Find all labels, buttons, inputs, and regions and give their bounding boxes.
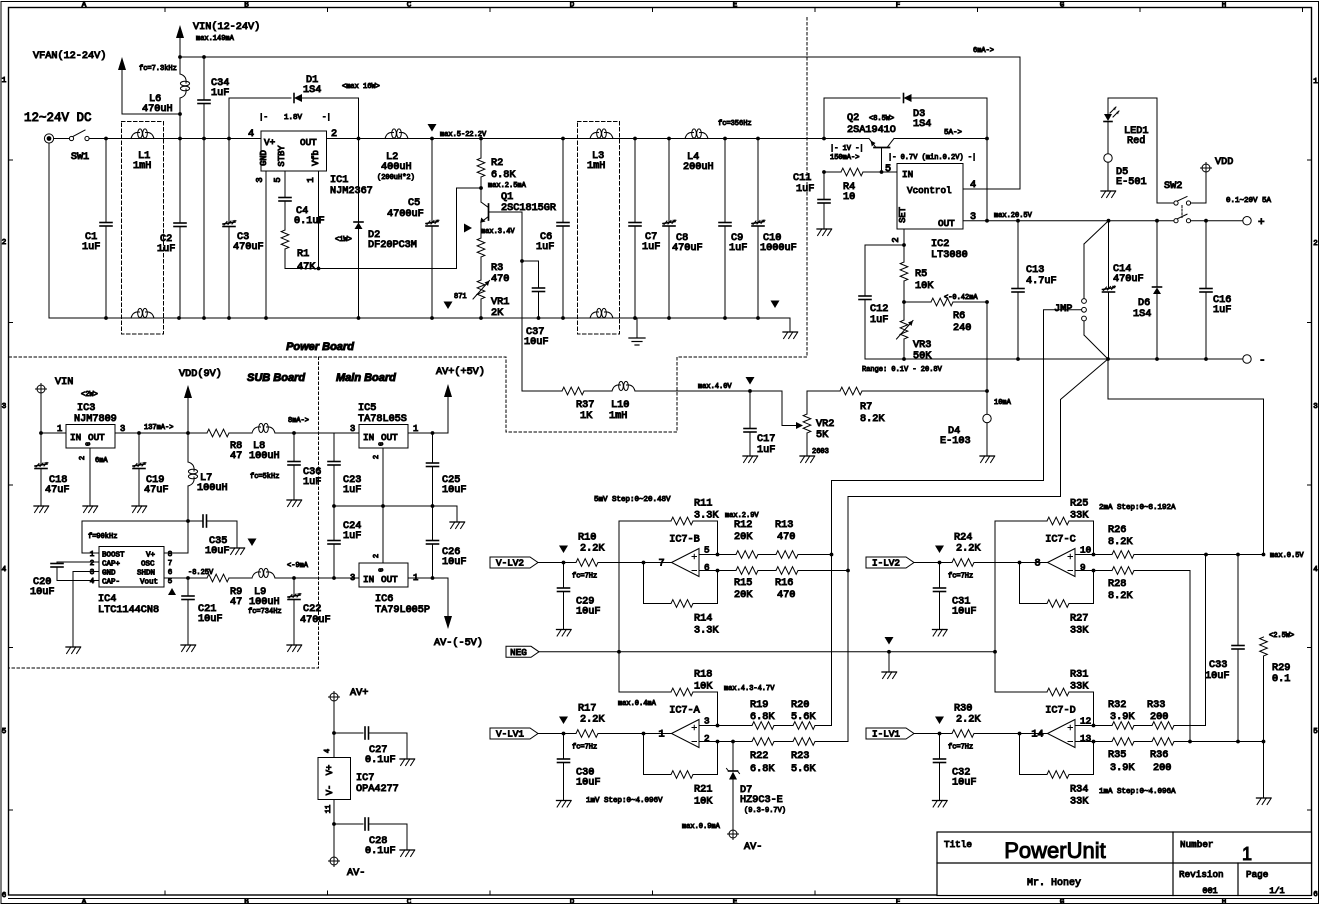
wire rail IC1 to Q2: [327, 137, 870, 141]
svg-text:6.8K: 6.8K: [491, 170, 516, 181]
IC3 ground pin: [79, 448, 108, 513]
resistor R22: [718, 738, 794, 775]
label max 20.5V: [994, 212, 1033, 220]
svg-text:Red: Red: [1127, 135, 1145, 147]
svg-text:1: 1: [1242, 844, 1252, 864]
regulator IC1 NJM2367 box: [261, 131, 327, 171]
inductor L3 bottom winding: [590, 308, 613, 318]
svg-text:1: 1: [1313, 78, 1318, 86]
label 2mA step: [1099, 504, 1176, 512]
svg-text:100uH: 100uH: [249, 597, 280, 608]
diode D6: [1133, 221, 1162, 359]
svg-text:400uH: 400uH: [381, 162, 412, 173]
svg-text:(9.3-9.7V): (9.3-9.7V): [744, 807, 786, 815]
label IC1 NJM2367: [330, 175, 373, 197]
svg-text:2.2K: 2.2K: [580, 544, 605, 555]
resistor R5: [900, 245, 934, 302]
svg-text:3: 3: [704, 716, 710, 727]
wire feedback bus left column: [618, 521, 620, 692]
IC4 gnd pin3: [66, 572, 99, 654]
label 1V 150mA measures: [830, 145, 976, 162]
wire I-LV1 input: [914, 717, 952, 736]
svg-text:V+: V+: [146, 552, 156, 560]
node max4.0V: [698, 377, 755, 393]
svg-text:4.7uF: 4.7uF: [1026, 276, 1057, 287]
svg-text:fc=7Hz: fc=7Hz: [948, 744, 973, 752]
svg-text:E: E: [733, 899, 738, 905]
capacitor C35: [188, 515, 257, 557]
svg-text:200: 200: [1150, 712, 1168, 723]
feedback resistor R14 bottom: [644, 563, 720, 637]
svg-text:4: 4: [90, 578, 95, 586]
node R2 bottom: [479, 186, 483, 190]
IC5 gnd pin2: [373, 448, 383, 506]
svg-text:5A->: 5A->: [944, 129, 963, 137]
svg-text:SET: SET: [898, 207, 908, 223]
svg-text:3: 3: [350, 424, 355, 434]
svg-text:AV-: AV-: [347, 868, 365, 879]
svg-text:5.6K: 5.6K: [791, 712, 816, 723]
svg-text:IC4: IC4: [98, 594, 116, 605]
oscillator loop f=90kHz: [82, 519, 190, 553]
capacitor C16: [1200, 221, 1231, 359]
wire feedback bus right column: [994, 521, 996, 692]
svg-text:150mA->: 150mA->: [830, 154, 859, 162]
net tag V-LV1: [490, 728, 538, 740]
svg-text:10K: 10K: [694, 682, 713, 693]
label 1mA step: [1099, 788, 1176, 796]
resistor R35: [1093, 738, 1153, 774]
capacitor C20: [30, 562, 99, 598]
svg-text:14: 14: [1031, 730, 1043, 741]
svg-text:D: D: [570, 899, 575, 905]
svg-text:VDD(9V): VDD(9V): [179, 368, 222, 380]
svg-text:11: 11: [325, 805, 333, 813]
svg-text:2: 2: [79, 456, 87, 460]
svg-text:R16: R16: [775, 578, 793, 589]
svg-text:NJM2367: NJM2367: [330, 186, 373, 197]
feedback resistor R11 top: [619, 499, 719, 555]
capacitor C7: [629, 139, 660, 319]
text max 16W: [342, 83, 380, 91]
wire D1 right leg: [358, 98, 360, 139]
capacitor C27: [334, 727, 415, 766]
output terminal plus: [1243, 217, 1265, 230]
svg-text:1S4: 1S4: [1133, 309, 1151, 320]
net tag I-LV2: [866, 557, 914, 569]
svg-text:4: 4: [248, 129, 254, 140]
svg-text:R31: R31: [1070, 670, 1088, 681]
node max5-22.2V marker: [428, 124, 488, 139]
IC2 labels: [885, 164, 955, 229]
svg-text:470: 470: [777, 532, 795, 543]
svg-text:47: 47: [230, 597, 242, 608]
wire R28 to I-LV1 line: [1188, 571, 1192, 744]
svg-text:6mA: 6mA: [95, 457, 108, 465]
capacitor C11: [793, 172, 832, 236]
IC5 pin numbers: [350, 424, 418, 434]
svg-text:2603: 2603: [812, 448, 829, 456]
svg-text:3.3K: 3.3K: [694, 626, 719, 637]
svg-text:R17: R17: [578, 704, 596, 715]
svg-text:OPA4277: OPA4277: [356, 784, 399, 795]
svg-text:1K: 1K: [580, 411, 593, 422]
svg-text:F: F: [896, 899, 901, 905]
jumper JMP: [1054, 299, 1086, 321]
svg-text:100uH: 100uH: [249, 451, 280, 462]
IC4 labels: [102, 552, 158, 587]
svg-text:V+: V+: [264, 137, 276, 148]
inductor L9: [248, 568, 359, 616]
svg-text:1uF: 1uF: [211, 88, 229, 99]
svg-text:2SA1941O: 2SA1941O: [847, 125, 896, 136]
svg-text:470uF: 470uF: [300, 615, 331, 626]
svg-text:A: A: [82, 2, 87, 10]
svg-text:7: 7: [658, 559, 664, 570]
svg-text:470uF: 470uF: [672, 243, 703, 254]
inductor L6: [139, 57, 190, 115]
svg-text:VIN(12-24V): VIN(12-24V): [193, 21, 260, 33]
ground NEG: [882, 637, 897, 679]
wire IC7 pin11: [332, 800, 336, 857]
svg-text:VFAN(12-24V): VFAN(12-24V): [33, 50, 106, 62]
svg-text:OUT: OUT: [381, 574, 398, 585]
label IC2 LT3080: [931, 239, 968, 261]
inductor L7: [188, 433, 279, 521]
wire IC1 gnd pin: [264, 171, 268, 320]
switch SW1: [54, 130, 106, 163]
capacitor C12: [859, 245, 888, 359]
svg-text:6: 6: [2, 892, 7, 900]
svg-text:5K: 5K: [816, 430, 829, 441]
border row numbers right: [1308, 78, 1319, 899]
label -9mA: [287, 562, 309, 570]
capacitor C1: [82, 139, 112, 319]
svg-text:10uF: 10uF: [576, 778, 600, 789]
svg-text:2: 2: [891, 237, 901, 242]
svg-text:3.3K: 3.3K: [694, 511, 719, 522]
svg-text:6: 6: [1313, 891, 1318, 899]
svg-text:50K: 50K: [913, 351, 932, 362]
svg-text:2.2K: 2.2K: [580, 715, 605, 726]
capacitor C23: [328, 433, 361, 506]
resistor R3: [477, 238, 509, 285]
capacitor C21: [181, 578, 222, 652]
label max 3.4V: [464, 224, 515, 237]
svg-text:Number: Number: [1180, 839, 1213, 850]
terminal VDD: [1201, 157, 1234, 203]
svg-text:1uF: 1uF: [642, 242, 660, 253]
wire minus to R29 C33: [1108, 359, 1264, 555]
svg-text:10uF: 10uF: [442, 485, 466, 496]
svg-text:Vout: Vout: [140, 579, 158, 587]
wire D3 left leg: [823, 98, 825, 139]
svg-text:VDD: VDD: [1215, 157, 1233, 168]
resistor R1: [281, 230, 316, 273]
svg-text:10uF: 10uF: [30, 587, 54, 598]
svg-text:10uF: 10uF: [524, 337, 548, 348]
svg-text:2: 2: [90, 560, 95, 568]
svg-text:470uF: 470uF: [1113, 274, 1144, 285]
text Main Board: [336, 372, 396, 384]
potentiometer VR2: [800, 391, 834, 463]
svg-text:2.2K: 2.2K: [956, 544, 981, 555]
regulator IC3 NJM7809 box: [66, 425, 115, 449]
svg-text:R27: R27: [1070, 614, 1088, 625]
svg-text:12: 12: [1080, 716, 1091, 727]
svg-text:R28: R28: [1108, 579, 1126, 590]
svg-text:IC7-A: IC7-A: [669, 706, 700, 717]
svg-text:Q2: Q2: [847, 113, 859, 124]
svg-text:max.4.0V: max.4.0V: [698, 383, 732, 391]
svg-text:IC7: IC7: [356, 773, 374, 784]
svg-text:OUT: OUT: [938, 218, 955, 229]
svg-text:1mH: 1mH: [587, 161, 605, 172]
svg-text:Revision: Revision: [1179, 869, 1224, 880]
op-amp IC7-C input wires: [1075, 545, 1095, 574]
svg-text:C13: C13: [1026, 265, 1044, 276]
svg-text:IN: IN: [363, 432, 374, 443]
resistor R32: [1093, 700, 1153, 729]
svg-text:LTC1144CN8: LTC1144CN8: [98, 605, 159, 616]
potentiometer VR3: [897, 302, 933, 362]
svg-text:R5: R5: [915, 269, 927, 280]
wire JMP bottom to minus: [1084, 321, 1108, 359]
svg-text:fc=7.3kHz: fc=7.3kHz: [139, 65, 177, 73]
svg-text:R21: R21: [694, 785, 712, 796]
svg-text:SHDN: SHDN: [137, 570, 155, 578]
svg-text:<max 16W>: <max 16W>: [342, 83, 380, 91]
svg-text:max.4.3-4.7V: max.4.3-4.7V: [724, 685, 775, 693]
capacitor C14: [1103, 221, 1144, 359]
capacitor C25: [427, 433, 467, 506]
svg-text:f=90kHz: f=90kHz: [88, 533, 117, 541]
wire power return rail: [49, 316, 790, 320]
svg-text:470: 470: [777, 590, 795, 601]
output terminal minus: [1243, 355, 1266, 367]
svg-text:R1: R1: [297, 249, 309, 260]
svg-text:1uF: 1uF: [729, 243, 747, 254]
capacitor C18: [34, 433, 69, 513]
svg-text:max.149mA: max.149mA: [196, 35, 235, 43]
LED1 branch wire: [1108, 98, 1174, 203]
svg-text:C22: C22: [303, 604, 321, 615]
svg-text:R22: R22: [750, 751, 768, 762]
svg-text:HZ9C3-E: HZ9C3-E: [740, 795, 783, 806]
svg-text:0.1~20V 5A: 0.1~20V 5A: [1226, 197, 1272, 205]
svg-text:12~24V DC: 12~24V DC: [24, 111, 92, 125]
diode D1: [229, 75, 359, 103]
svg-text:AV+(+5V): AV+(+5V): [436, 366, 485, 378]
wire sense bus V to I lower: [831, 555, 833, 726]
svg-text:4: 4: [2, 566, 7, 574]
svg-text:8.2K: 8.2K: [860, 414, 885, 425]
svg-text:47K: 47K: [297, 262, 316, 273]
svg-text:5.6K: 5.6K: [791, 764, 816, 775]
label L3 1mH: [587, 151, 605, 172]
svg-text:R25: R25: [1070, 499, 1088, 510]
svg-text:1: 1: [90, 551, 95, 559]
terminal AV+ op-amp: [329, 688, 369, 758]
svg-text:R33: R33: [1147, 700, 1165, 711]
IC4 pin numbers: [90, 551, 173, 586]
terminal AV- op-amp: [329, 856, 366, 880]
svg-text:470uH: 470uH: [142, 104, 173, 115]
svg-text:6mA->: 6mA->: [973, 47, 994, 55]
VDD power arrow: [179, 368, 222, 433]
svg-text:33K: 33K: [1070, 797, 1089, 808]
svg-text:max.0.9mA: max.0.9mA: [682, 823, 721, 831]
wire sense bus JMP: [832, 310, 1082, 555]
VFAN power arrow: [33, 50, 182, 116]
svg-text:47uF: 47uF: [45, 485, 69, 496]
feedback resistor R27 bottom: [1020, 563, 1094, 637]
svg-text:2: 2: [373, 554, 381, 558]
capacitor C26: [427, 506, 467, 578]
wire minus bus: [848, 359, 1108, 571]
svg-text:OUT: OUT: [381, 432, 398, 443]
svg-text:C5: C5: [408, 198, 420, 209]
charge pump IC4 box: [99, 547, 164, 588]
svg-text:10: 10: [843, 192, 855, 203]
svg-text:AV-: AV-: [744, 842, 762, 853]
resistor R24: [952, 533, 1020, 567]
label IC5 TA78L05S: [358, 403, 407, 425]
svg-text:R23: R23: [791, 751, 809, 762]
svg-text:3: 3: [90, 569, 95, 577]
svg-text:4: 4: [324, 749, 332, 753]
IC2 pin3 out wire: [963, 212, 1208, 223]
svg-text:<-9mA: <-9mA: [287, 562, 309, 570]
svg-text:TA78L05S: TA78L05S: [358, 414, 407, 425]
svg-text:R29: R29: [1272, 663, 1290, 674]
IC3 pin numbers: [57, 424, 125, 434]
svg-text:200uH: 200uH: [683, 162, 714, 173]
op-amp IC7-D input wires: [1075, 716, 1095, 745]
svg-text:1uF: 1uF: [870, 315, 888, 326]
text Power Board: [286, 341, 354, 353]
svg-text:V-LV2: V-LV2: [496, 558, 524, 569]
wire Q2 base: [880, 148, 884, 174]
svg-text:IC7-B: IC7-B: [669, 535, 700, 546]
svg-text:IC3: IC3: [77, 403, 95, 414]
svg-text:OUT: OUT: [300, 137, 317, 148]
text SUB Board: [247, 372, 305, 384]
resistor R17: [576, 704, 644, 738]
wire input down: [48, 143, 50, 318]
svg-text:R18: R18: [694, 670, 712, 681]
net tag V-LV2: [490, 557, 538, 569]
terminal AV- zener: [682, 823, 762, 853]
inductor L2: [377, 129, 415, 182]
IC1 pin labels inside: [259, 137, 321, 167]
svg-text:R10: R10: [578, 533, 596, 544]
wire IC5 out: [408, 431, 448, 435]
wire VIN rail: [178, 55, 1020, 59]
op-amp IC7-A: [644, 706, 701, 748]
svg-text:3: 3: [1313, 403, 1318, 411]
svg-text:R13: R13: [775, 520, 793, 531]
svg-text:7: 7: [168, 560, 173, 568]
label 1.8V measure: [259, 114, 331, 122]
wire NEG line: [539, 650, 997, 654]
svg-text:10uF: 10uF: [205, 546, 229, 557]
svg-text:IC5: IC5: [358, 403, 376, 414]
resistor R29: [1260, 632, 1295, 742]
svg-text:0.1uF: 0.1uF: [365, 755, 396, 766]
svg-text:6.8K: 6.8K: [750, 712, 775, 723]
capacitor C10: [752, 139, 797, 319]
svg-text:R11: R11: [694, 499, 712, 510]
node op-amp IC7-B output: [642, 561, 646, 565]
svg-text:10uF: 10uF: [576, 607, 600, 618]
op-amp IC7-D: [1020, 706, 1076, 748]
svg-text:H: H: [1222, 899, 1227, 905]
resistor R12: [718, 520, 777, 558]
IC7 pin numbers: [324, 749, 333, 813]
node op-amp IC7-D output: [1018, 732, 1022, 736]
AV- arrow: [434, 616, 483, 649]
svg-text:33K: 33K: [1070, 682, 1089, 693]
svg-text:BOOST: BOOST: [102, 552, 125, 560]
wire Q1 emitter: [480, 222, 482, 239]
svg-text:1000uF: 1000uF: [760, 243, 797, 254]
IC6 pin2 wire: [373, 506, 383, 563]
label L1 1mH: [133, 151, 151, 172]
svg-text:R12: R12: [734, 520, 752, 531]
resistor R13: [775, 520, 833, 558]
inductor L8: [249, 423, 359, 462]
svg-text:871: 871: [454, 293, 467, 301]
label output rating: [1226, 197, 1272, 205]
svg-text:1uF: 1uF: [796, 184, 814, 195]
svg-text:E: E: [733, 2, 738, 10]
resistor R36: [1150, 738, 1265, 774]
svg-text:3: 3: [970, 212, 976, 223]
resistor R19: [718, 700, 794, 729]
svg-text:C33: C33: [1209, 660, 1227, 671]
svg-text:PowerUnit: PowerUnit: [1004, 838, 1105, 863]
net tag NEG: [506, 646, 539, 658]
resistor R4: [822, 168, 897, 203]
resistor R6: [904, 294, 989, 334]
label R37 1K: [576, 400, 594, 422]
inductor L1 bottom winding: [131, 308, 154, 318]
svg-text:CAP-: CAP-: [102, 579, 120, 587]
ground return rail end: [771, 301, 798, 339]
svg-text:10K: 10K: [915, 281, 934, 292]
svg-text:max.2.9V: max.2.9V: [725, 512, 759, 520]
node R5 R6 junction: [902, 300, 906, 304]
svg-text:9: 9: [1080, 562, 1086, 573]
resistor R30: [952, 704, 1020, 738]
wire I-LV2 input: [914, 546, 952, 565]
op-amp IC7-B input wires: [699, 545, 719, 574]
svg-text:LT3080: LT3080: [931, 250, 968, 261]
svg-text:<-0.42mA: <-0.42mA: [944, 294, 978, 302]
svg-text:1uF: 1uF: [757, 445, 775, 456]
svg-text:5: 5: [1313, 728, 1318, 736]
wire Q1 base to sense: [489, 212, 524, 391]
capacitor C2: [157, 223, 186, 318]
svg-text:IC1: IC1: [330, 175, 348, 186]
feedback resistor R34 bottom: [1020, 734, 1094, 808]
svg-text:VIN: VIN: [55, 377, 73, 388]
label Range 0.1V-20.8V: [862, 366, 943, 374]
svg-text:JMP: JMP: [1054, 304, 1072, 315]
svg-text:Range: 0.1V - 20.8V: Range: 0.1V - 20.8V: [862, 366, 943, 374]
svg-text:C: C: [407, 899, 412, 905]
